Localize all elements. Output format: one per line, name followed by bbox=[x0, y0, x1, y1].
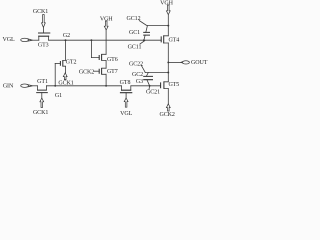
wire GC1 top lead horizontal bbox=[147, 25, 168, 27]
junction dot GC2 top bbox=[167, 72, 169, 74]
svg-text:GCK2: GCK2 bbox=[160, 112, 175, 118]
wire GOUT column to GT5 bbox=[167, 62, 169, 81]
input arrow GCK1 mid bbox=[63, 73, 67, 80]
junction dot GOUT bbox=[167, 61, 169, 63]
input arrow VGH mid bbox=[104, 21, 108, 30]
wire GT4 down to GOUT bbox=[167, 43, 169, 62]
transistor GT2 bbox=[55, 60, 65, 66]
junction dot GT7 on G1 bbox=[105, 85, 107, 87]
svg-text:GT3: GT3 bbox=[38, 42, 49, 48]
svg-text:VGH: VGH bbox=[160, 1, 173, 7]
svg-text:GC12: GC12 bbox=[127, 16, 141, 22]
svg-text:GT6: GT6 bbox=[107, 57, 118, 63]
svg-text:GT4: GT4 bbox=[168, 37, 179, 43]
wire VGH column to GT4 bbox=[167, 15, 169, 36]
capacitor GC2 bbox=[143, 73, 153, 86]
wire GT2 source down bbox=[65, 66, 67, 72]
junction dot GT2 gate on G1 bbox=[54, 85, 56, 87]
terminal GIN bbox=[21, 84, 33, 87]
svg-text:G1: G1 bbox=[55, 93, 62, 99]
wire GC2 top lead horizontal bbox=[145, 72, 168, 74]
svg-text:GC11: GC11 bbox=[128, 44, 142, 50]
svg-text:VGL: VGL bbox=[120, 111, 132, 117]
transistor GT6 bbox=[99, 54, 106, 61]
svg-text:GT7: GT7 bbox=[107, 69, 118, 75]
leader GC12 bbox=[139, 21, 146, 26]
svg-text:GT1: GT1 bbox=[37, 79, 48, 85]
wire G2 to GT6 gate bbox=[91, 40, 99, 57]
svg-text:GT5: GT5 bbox=[168, 82, 179, 88]
svg-text:GC21: GC21 bbox=[146, 90, 160, 96]
svg-text:GC22: GC22 bbox=[129, 61, 143, 67]
wire GT7 down to G1 bbox=[105, 74, 107, 86]
svg-text:GC1: GC1 bbox=[129, 30, 140, 36]
node G2 junction dot bbox=[65, 39, 67, 41]
wire GT5 down bbox=[167, 89, 169, 104]
input arrow GCK1 bottom bbox=[40, 98, 44, 107]
svg-text:GC2: GC2 bbox=[132, 72, 143, 78]
wire VGL to GT3 bbox=[33, 39, 39, 41]
wire G3 rail bbox=[131, 85, 160, 87]
leader GC21 bbox=[148, 86, 151, 89]
svg-text:VGL: VGL bbox=[2, 37, 14, 43]
junction dot GC1 top bbox=[167, 25, 169, 27]
transistor GT5 bbox=[161, 81, 169, 88]
transistor GT1 bbox=[36, 86, 48, 98]
svg-text:GOUT: GOUT bbox=[191, 60, 208, 66]
wire G1 rail bbox=[46, 85, 121, 87]
wire GT2 gate down to G1 bbox=[54, 63, 56, 85]
terminal VGL bbox=[21, 38, 33, 41]
svg-text:GT8: GT8 bbox=[120, 80, 131, 86]
capacitor GC1 bbox=[143, 26, 150, 41]
wire GIN to GT1 bbox=[33, 85, 38, 87]
wire GT6 to GT7 bbox=[105, 60, 107, 68]
leader GC22 bbox=[141, 65, 145, 73]
terminal GOUT bbox=[181, 61, 190, 64]
junction dot GC2 bottom on G3 bbox=[149, 85, 151, 87]
transistor GT8 bbox=[120, 86, 132, 98]
input arrow GCK2 bottom bbox=[166, 104, 170, 111]
wire GOUT tap bbox=[168, 61, 181, 63]
input arrow VGH right bbox=[166, 5, 170, 15]
input arrow GCK1 top bbox=[42, 15, 46, 28]
wire G2 down to GT2 bbox=[65, 40, 67, 60]
svg-text:GCK1: GCK1 bbox=[33, 110, 48, 116]
junction dot GC1 bottom bbox=[143, 39, 145, 41]
leader GC11 bbox=[140, 41, 145, 44]
svg-text:GCK2: GCK2 bbox=[79, 69, 94, 75]
svg-text:GCK1: GCK1 bbox=[33, 9, 48, 15]
svg-text:GT2: GT2 bbox=[66, 59, 77, 65]
wire G2 rail bbox=[49, 39, 162, 41]
wire VGH down to GT6 crossing G2 bbox=[105, 30, 107, 54]
transistor GT4 bbox=[161, 35, 168, 43]
transistor GT7 bbox=[94, 68, 106, 75]
svg-text:G3: G3 bbox=[136, 79, 143, 85]
svg-text:G2: G2 bbox=[63, 33, 70, 39]
svg-text:GIN: GIN bbox=[3, 84, 14, 90]
transistor GT3 bbox=[38, 33, 50, 40]
junction dot GT6 gate on G2 bbox=[90, 39, 92, 41]
input arrow VGL bottom bbox=[124, 98, 128, 107]
wire gate lead GT3 bbox=[42, 28, 44, 33]
